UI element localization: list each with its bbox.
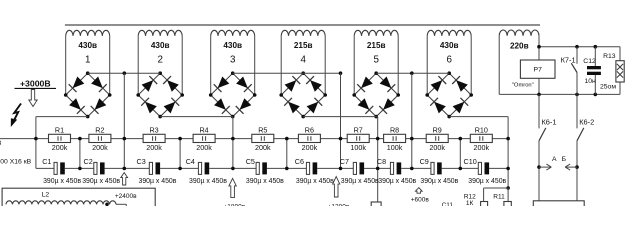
- wire capacitor chain rail: [36, 167, 54, 169]
- arrow node +2400в: [121, 173, 128, 185]
- winding 6 (430в): [427, 30, 471, 95]
- svg-text:R7: R7: [354, 126, 363, 135]
- capacitor C2 390µ x 450в: [82, 157, 120, 185]
- wire node +1200 vertical: [340, 73, 342, 168]
- svg-text:А: А: [552, 156, 557, 163]
- winding 220в: [499, 30, 539, 94]
- svg-text:430в: 430в: [223, 41, 242, 50]
- svg-text:+600в: +600в: [411, 197, 430, 204]
- svg-text:6: 6: [446, 54, 452, 65]
- svg-text:200k: 200k: [255, 143, 271, 152]
- capacitor C7 390µ x 450в: [340, 157, 379, 185]
- svg-text:200k: 200k: [302, 143, 318, 152]
- junction dots on capacitor rail: [78, 167, 510, 171]
- capacitor C3 390µ x 450в: [137, 157, 177, 185]
- svg-text:430в: 430в: [440, 41, 459, 50]
- svg-text:215в: 215в: [367, 41, 386, 50]
- svg-text:200k: 200k: [474, 143, 490, 152]
- svg-text:3: 3: [230, 54, 236, 65]
- resistor R8 100k: [384, 126, 406, 153]
- inductor L2: [6, 201, 126, 208]
- wire Р7 bottom lead: [538, 78, 540, 94]
- svg-text:Б: Б: [562, 156, 567, 163]
- svg-text:430в: 430в: [151, 41, 170, 50]
- wire mid junction vertical: [459, 139, 461, 169]
- svg-text:+2400в: +2400в: [115, 193, 137, 200]
- svg-text:R8: R8: [390, 126, 399, 135]
- svg-text:+1200в: +1200в: [328, 203, 350, 206]
- svg-text:390µ x 450в: 390µ x 450в: [43, 178, 81, 185]
- resistor R12 1К: [464, 193, 488, 207]
- arrow node +1800в: [229, 178, 236, 197]
- svg-text:Р7: Р7: [534, 67, 543, 74]
- svg-text:200k: 200k: [52, 143, 68, 152]
- wire node 0 vertical: [507, 117, 509, 188]
- arrow to point А: [537, 164, 551, 170]
- wire mid junction vertical: [179, 139, 181, 169]
- wire bridge3-top to bridge4-top, corner to node +1200: [233, 71, 343, 75]
- wire bridge1-top to bridge2-top: [88, 71, 161, 75]
- svg-text:C7: C7: [340, 157, 349, 166]
- wire bridge5-top to bridge6-top: [376, 71, 449, 75]
- svg-text:C1: C1: [42, 157, 51, 166]
- svg-text:С11: С11: [442, 202, 454, 206]
- svg-text:R2: R2: [95, 126, 104, 135]
- resistor R9 200k: [426, 126, 448, 153]
- diode bridge 1: [64, 71, 112, 118]
- diode bridge 5: [352, 71, 400, 118]
- svg-text:R4: R4: [199, 126, 208, 135]
- svg-text:200k: 200k: [196, 143, 212, 152]
- arrow down from +3000В: [29, 90, 37, 107]
- svg-text:390µ x 450в: 390µ x 450в: [420, 178, 458, 185]
- svg-text:1: 1: [85, 54, 90, 65]
- block box with L2: [2, 188, 155, 210]
- switch К7-1: [561, 47, 577, 95]
- svg-text:2: 2: [157, 54, 162, 65]
- wire bridge2-bottom to bridge3-bottom: [160, 116, 233, 118]
- diode bridge 2: [136, 71, 184, 118]
- svg-text:+3000В: +3000В: [20, 78, 51, 88]
- resistor R6 200k: [298, 126, 320, 153]
- wire top rail 220в section: [537, 45, 620, 61]
- svg-text:200k: 200k: [429, 143, 445, 152]
- svg-text:C8: C8: [377, 157, 386, 166]
- junction dots on resistor rail: [34, 137, 510, 141]
- winding 4 (215в): [281, 30, 325, 95]
- component box under mid node (cut): [371, 202, 381, 208]
- arrow node +600в: [415, 188, 422, 194]
- wire bridge6-bottom to node 0: [449, 116, 508, 118]
- wire node +3000 vertical: [35, 117, 37, 169]
- capacitor С12 10н: [583, 47, 601, 95]
- switch К6-1: [539, 94, 557, 200]
- high voltage lightning symbol: [14, 104, 21, 122]
- svg-text:C9: C9: [420, 157, 429, 166]
- resistor R13 25ом: [600, 53, 624, 90]
- svg-text:10н: 10н: [585, 78, 597, 85]
- svg-text:215в: 215в: [294, 41, 313, 50]
- wire mid junction vertical: [286, 139, 288, 169]
- svg-text:C2: C2: [84, 157, 93, 166]
- svg-text:К6-1: К6-1: [542, 117, 557, 126]
- svg-text:100k: 100k: [350, 143, 366, 152]
- wire node +1800 vertical: [232, 117, 234, 169]
- svg-text:+1800в: +1800в: [223, 204, 245, 206]
- resistor R2 200k: [89, 126, 111, 153]
- svg-text:R11: R11: [493, 193, 505, 200]
- wire bridge4-bottom to bridge5-bottom: [303, 116, 378, 118]
- resistor R1 200k: [49, 126, 71, 153]
- svg-text:390µ x 450в: 390µ x 450в: [468, 178, 506, 185]
- svg-text:100k: 100k: [387, 143, 403, 152]
- winding 5 (215в): [354, 30, 398, 95]
- svg-text:R6: R6: [305, 126, 314, 135]
- capacitor C1 390µ x 450в: [42, 157, 81, 185]
- svg-text:300 X16 кВ: 300 X16 кВ: [0, 159, 32, 166]
- block box bottom right (cut): [533, 201, 584, 209]
- wire node +600 vertical: [411, 73, 413, 168]
- capacitor C8 390µ x 450в: [377, 157, 417, 185]
- svg-text:L2: L2: [42, 191, 50, 198]
- resistor R4 200k: [193, 126, 215, 153]
- svg-text:C4: C4: [186, 157, 195, 166]
- wire bottom rail 220в section: [499, 82, 620, 96]
- node split to R12/R11: [484, 186, 510, 201]
- svg-text:R3: R3: [149, 126, 158, 135]
- svg-text:220в: 220в: [510, 42, 529, 51]
- svg-text:390µ x 450в: 390µ x 450в: [82, 178, 120, 185]
- capacitor C5 390µ x 450в: [246, 157, 284, 185]
- resistor R10 200k: [470, 126, 492, 153]
- resistor R5 200k: [252, 126, 274, 153]
- svg-text:C6: C6: [295, 157, 304, 166]
- relay Р7: [520, 60, 555, 78]
- svg-text:390µ x 450в: 390µ x 450в: [246, 178, 284, 185]
- svg-text:R1: R1: [55, 126, 64, 135]
- arrow to point Б: [565, 164, 579, 170]
- wire node +2400 vertical: [123, 73, 125, 168]
- winding 1 (430в): [66, 30, 110, 95]
- arrow node +1200в: [333, 177, 340, 197]
- diode bridge 3: [209, 71, 257, 118]
- svg-text:"Omron": "Omron": [512, 82, 534, 88]
- winding 2 (430в): [138, 30, 182, 95]
- diode bridge 4: [279, 71, 327, 118]
- diode bridge 6: [425, 71, 473, 118]
- svg-text:25ом: 25ом: [600, 84, 616, 91]
- svg-text:К7-1: К7-1: [561, 55, 576, 64]
- svg-text:R9: R9: [433, 126, 442, 135]
- wire mid junction vertical: [79, 139, 81, 169]
- svg-text:200k: 200k: [92, 143, 108, 152]
- svg-text:5: 5: [373, 54, 379, 65]
- svg-text:R13: R13: [603, 53, 616, 60]
- winding 3 (430в): [211, 30, 255, 95]
- capacitor C6 390µ x 450в: [295, 157, 334, 185]
- svg-text:C3: C3: [137, 157, 146, 166]
- label +3000В: [15, 78, 57, 88]
- svg-text:4: 4: [300, 54, 306, 65]
- resistor R7 100k: [347, 126, 369, 153]
- switch К6-2: [577, 94, 594, 200]
- svg-text:390µ x 450в: 390µ x 450в: [296, 178, 334, 185]
- svg-text:C10: C10: [464, 157, 477, 166]
- junction dot on L2 wire: [105, 203, 109, 207]
- svg-text:К6-2: К6-2: [579, 117, 594, 126]
- transformer core line: [65, 24, 540, 26]
- resistor R3 200k: [143, 126, 165, 153]
- svg-text:1К: 1К: [466, 200, 474, 206]
- wire mid node R7/R8 long vertical: [377, 117, 379, 202]
- svg-text:430в: 430в: [78, 41, 97, 50]
- svg-text:390µ x 450в: 390µ x 450в: [378, 178, 416, 185]
- capacitor C4 390µ x 450в: [186, 157, 228, 185]
- svg-text:390µ x 450в: 390µ x 450в: [139, 178, 177, 185]
- svg-text:С12: С12: [583, 58, 596, 65]
- wire bridge1-bottom to +3000 rail: [36, 116, 88, 118]
- svg-text:R10: R10: [475, 126, 488, 135]
- resistor R11: [493, 193, 511, 207]
- capacitor C9 390µ x 450в: [420, 157, 459, 185]
- svg-text:390µ x 450в: 390µ x 450в: [189, 178, 227, 185]
- svg-text:200k: 200k: [146, 143, 162, 152]
- svg-text:R5: R5: [258, 126, 267, 135]
- svg-text:390µ x 450в: 390µ x 450в: [341, 178, 379, 185]
- capacitor C10 390µ x 450в: [464, 157, 507, 185]
- wire resistor chain rail: [0, 138, 49, 140]
- svg-text:C5: C5: [246, 157, 255, 166]
